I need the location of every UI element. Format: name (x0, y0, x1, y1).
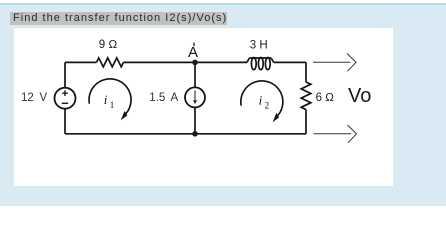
svg-text:6 Ω: 6 Ω (316, 92, 335, 104)
mesh current i2 arc (241, 81, 283, 122)
white drawing area (14, 28, 393, 186)
label i2 (259, 92, 270, 110)
label i1 (104, 92, 115, 110)
svg-text:3 H: 3 H (250, 40, 268, 52)
svg-text:Vo: Vo (348, 85, 371, 107)
output arrow top (313, 54, 356, 72)
svg-text:i: i (104, 92, 108, 107)
svg-text:A: A (171, 92, 179, 104)
wire top-right segment (274, 61, 306, 63)
current source I1 1.5A circle (185, 87, 205, 107)
mesh current i1 arc (89, 79, 131, 120)
svg-text:1.5: 1.5 (149, 92, 165, 104)
wire middle vertical upper (194, 62, 196, 87)
output arrow bottom (314, 125, 357, 143)
bottom junction dot (192, 131, 198, 137)
label 12 V (21, 92, 48, 104)
wire left vertical lower (64, 109, 66, 134)
voltage source V1 12V circle (55, 88, 76, 109)
title text (13, 13, 227, 24)
voltage source plus sign (62, 90, 68, 96)
svg-text:9 Ω: 9 Ω (99, 39, 118, 51)
wire right vertical lower (305, 110, 307, 134)
voltage source minus sign (62, 102, 68, 104)
wire top-middle segment (124, 61, 248, 63)
node A junction dot (192, 60, 198, 66)
current source arrow (193, 91, 197, 105)
resistor R2 6-ohm zigzag (301, 82, 311, 110)
label 1.5 A (149, 92, 178, 104)
title bar (10, 12, 227, 25)
inductor L1 3-henry coil (247, 58, 274, 70)
node A label tick (193, 43, 195, 47)
wire left vertical upper (64, 62, 66, 87)
wire right vertical upper (305, 62, 307, 82)
svg-text:V: V (40, 92, 48, 104)
svg-text:1: 1 (110, 100, 115, 110)
wire middle vertical lower (194, 107, 196, 133)
svg-text:A: A (188, 44, 198, 61)
wire bottom segment (65, 133, 306, 135)
resistor R1 9-ohm zigzag (97, 58, 124, 67)
svg-text:i: i (259, 92, 263, 107)
svg-text:2: 2 (265, 101, 270, 111)
wire top-left segment (65, 61, 97, 63)
svg-text:12: 12 (21, 92, 34, 104)
